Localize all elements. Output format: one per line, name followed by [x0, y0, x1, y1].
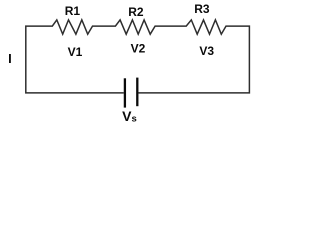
svg-text:I: I — [8, 51, 12, 66]
svg-text:Vs: Vs — [122, 108, 137, 124]
svg-text:R2: R2 — [128, 5, 144, 19]
svg-text:R1: R1 — [65, 4, 81, 18]
svg-text:R3: R3 — [194, 2, 210, 16]
svg-text:V1: V1 — [68, 45, 83, 59]
svg-text:V2: V2 — [131, 42, 146, 56]
svg-text:V3: V3 — [199, 44, 214, 58]
